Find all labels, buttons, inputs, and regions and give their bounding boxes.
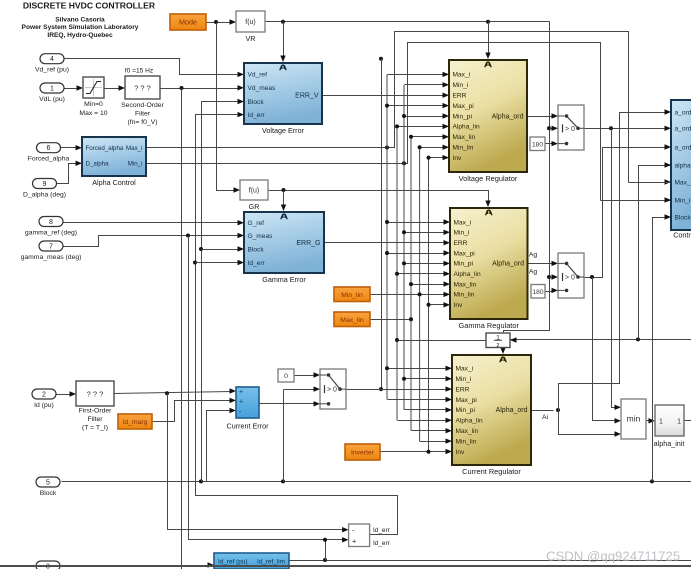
function block GR [240,180,268,211]
svg-text:Alpha Control: Alpha Control [92,178,136,187]
svg-text:Min_i: Min_i [454,230,470,237]
svg-text:Inv: Inv [454,302,463,309]
svg-text:ERR: ERR [456,386,470,393]
svg-text:Id_marg: Id_marg [123,419,148,426]
arrow into Gamma Error G_meas [238,233,245,238]
arrow into Current Regulator Max_lin [446,428,453,433]
junction bus at Gamma Min_i [402,230,406,234]
svg-text:Min_i: Min_i [128,161,143,168]
arrow into min input 2 [615,418,622,423]
wire ERR_G to Gamma Regulator [325,242,446,244]
junction bus at Voltage Inv [427,156,431,160]
subsystem Gamma Error [244,212,324,284]
wire trigger drop to Gamma Error [283,191,285,206]
svg-text:Alpha_lin: Alpha_lin [453,124,480,131]
wire Id to first-order filter [57,394,72,396]
inport 2 Id [32,389,56,409]
svg-text:+: + [352,537,357,546]
wire Block bus up to Voltage Error [202,102,240,482]
arrow into Voltage Regulator Min_pi [443,113,450,118]
signal label Id_err upper [373,527,391,534]
svg-text:? ? ?: ? ? ? [134,84,151,93]
switch 2 gamma [558,253,584,298]
svg-text:Silvano Casoria: Silvano Casoria [55,17,105,24]
svg-text:Min_lin: Min_lin [453,145,474,152]
wire bus tap to Voltage Regulator Max_i [388,74,445,76]
wire Ai up to controller a_ord_I [559,113,667,411]
svg-text:a_ord_: a_ord_ [675,144,691,151]
svg-text:Ag: Ag [529,252,538,259]
wire bus tap to Voltage Regulator Min_i [405,84,445,86]
svg-text:min: min [627,414,641,424]
wire Current Regulator Alpha_ord Ai [532,410,554,412]
svg-text:Min_pi: Min_pi [456,407,476,414]
arrow into first-order filter [70,391,77,396]
wire filter output to Vd_meas [161,88,240,90]
junction switch 1 output to min [609,126,613,130]
svg-text:Voltage Error: Voltage Error [262,126,305,135]
junction Vd_meas bus tap [180,86,184,90]
svg-text:7: 7 [49,243,53,250]
svg-text:9: 9 [43,181,47,188]
svg-text:Min_i: Min_i [456,376,472,383]
wire Min_lin source to Gamma Regulator [371,294,446,296]
wire bus tap to Voltage Regulator Max_lin [412,136,445,138]
wire switch 2 output to controller a_ord_G [585,148,667,278]
junction bus at Voltage Min_lin [418,145,422,149]
wire bus tap to Current Regulator Min_i [405,378,448,380]
arrow into Voltage Regulator Min_lin [443,145,450,150]
arrow into switch 3 control [314,386,321,391]
arrow into Gamma Regulator Max_lin [444,281,451,286]
source block Max_lin [334,312,370,327]
arrow into Current Regulator Min_lin [446,438,453,443]
wire alpha_init output [685,420,691,422]
author line 3 [47,32,113,39]
svg-text:? ? ?: ? ? ? [87,390,104,399]
junction Max_i bus source [385,146,389,150]
wire Max_i to controller Max_i [147,32,629,183]
arrow into controller alpha [665,162,672,167]
arrow into Current Error plus2 [230,398,237,403]
wire bus tap to Voltage Regulator Min_lin [420,147,445,149]
arrow into Gamma Error Block [238,246,245,251]
arrow into Voltage Regulator Max_pi [443,103,450,108]
arrow into Gamma Regulator Min_i [444,230,451,235]
wire bus tap to Gamma Regulator Min_i [405,232,446,234]
subsystem Alpha Control [82,137,146,187]
arrow into GR f(u) [234,187,241,192]
svg-text:Min_i: Min_i [675,197,691,204]
svg-text:Min=0: Min=0 [84,101,103,108]
wire Ai to min input 3 [559,411,617,435]
arrow into Voltage Regulator Min_i [443,82,450,87]
wire Forced_alpha to Alpha Control [60,147,79,149]
signal label Ag upper [529,252,538,259]
arrow into VR f(u) [230,19,237,24]
arrow into Voltage Error trigger [280,56,285,63]
wire Block signal horizontal [62,481,691,483]
svg-text:Id_err: Id_err [248,260,266,267]
svg-text:z: z [496,342,499,349]
svg-text:Current Error: Current Error [227,422,270,431]
svg-text:Id_err: Id_err [248,112,266,119]
wire Id_ref input [62,565,210,567]
arrow into min input 3 [615,431,622,436]
wire switch 2 output down to min input 2 [593,278,617,421]
junction Block wire to left bus [199,479,203,483]
wire gamma_ref to Gamma Error [63,222,240,224]
wire Id measured to Current Error [115,392,232,394]
svg-text:Voltage Regulator: Voltage Regulator [459,174,518,183]
arrow into sum plus [342,537,349,542]
inport 8 gamma_ref [25,217,77,237]
junction unit delay to Alpha_lin bus [395,338,399,342]
wire control to switch 1 [550,128,554,130]
arrow into Current Regulator ERR [446,386,453,391]
wire GR function output line [269,190,485,192]
wire Min_i to controller Min_i [147,43,601,201]
svg-text:VR: VR [246,34,256,43]
svg-text:alpha_init: alpha_init [654,439,685,448]
junction trigger Voltage Error [281,20,285,24]
svg-text:Alpha_lin: Alpha_lin [454,271,481,278]
junction at sum plus line [323,538,327,542]
wire Id measured down to sum minus [168,394,345,530]
arrow into Voltage Regulator Inv [443,155,450,160]
svg-text:180: 180 [532,141,543,148]
title text [23,1,156,11]
function block VR [236,11,265,43]
svg-text:Current Regulator: Current Regulator [462,467,521,476]
wire into switch 3 control [284,389,316,391]
svg-text:ERR: ERR [453,93,467,100]
arrow into switch 2 control [552,274,559,279]
wire trigger drop to Gamma Regulator [485,191,489,202]
wire Gamma Regulator Alpha_ord to switch 2 [528,263,554,265]
arrow into switch 1 input 3 [552,141,559,146]
svg-text:Ag: Ag [529,269,538,276]
svg-text:Min_pi: Min_pi [454,261,474,268]
junction bus at Voltage Max_pi [385,104,389,108]
wire switch 3 output to Current Regulator ERR [347,389,448,391]
wire Vd_ref distribution bus [381,59,383,390]
svg-text:Forced_alpha: Forced_alpha [86,145,124,152]
bus Max_lin vertical [410,137,412,431]
constant zero [278,369,294,382]
svg-text:Id (pu): Id (pu) [34,402,54,409]
svg-text:gamma_meas (deg): gamma_meas (deg) [21,254,82,261]
junction bus at Gamma Max_lin [409,282,413,286]
arrow into controller a_ord_V [665,126,672,131]
arrow into switch 3 input 1 [314,372,321,377]
wire bus tap to Current Regulator Alpha_lin [398,420,448,422]
svg-text:ERR_V: ERR_V [295,93,319,100]
arrow into switch 2 input 3 [552,288,559,293]
bus Max_i vertical [386,74,388,399]
arrow into Gamma Regulator trigger [485,201,490,208]
svg-text:0: 0 [284,373,288,380]
wire bus tap to Current Regulator Max_lin [412,430,448,432]
svg-text:a_ord_: a_ord_ [675,109,691,116]
junction Max_lin bus source [409,317,413,321]
arrow into Current Regulator Min_i [446,376,453,381]
svg-text:Block: Block [248,99,265,106]
wire bus tap to Voltage Regulator Max_pi [388,105,445,107]
wire Min_i into controller [601,200,672,202]
wire Id_ref_lim output [290,560,691,562]
svg-text:Alpha_ord: Alpha_ord [492,113,524,120]
svg-text:Max = 10: Max = 10 [79,110,107,117]
svg-text:Max_lin: Max_lin [340,317,364,324]
arrow into Voltage Error Vd_ref [238,72,245,77]
source block Mode [170,14,206,30]
wire D_alpha to Alpha Control [56,164,79,184]
inport 9 D_alpha [23,179,66,199]
wire bus tap to Voltage Regulator Min_pi [405,116,445,118]
svg-text:Max_pi: Max_pi [454,250,476,257]
junction Ai [556,408,560,412]
junction Id_err to Gamma Error [193,261,197,265]
first-order filter block [76,381,114,432]
wire Mode to VR function [207,22,232,24]
arrow into Gamma Error G_ref [238,220,245,225]
junction Vd_ref branch [379,57,383,61]
svg-text:1: 1 [659,419,663,426]
wire control to switch 2 [550,277,554,279]
wire 180 constant to switch 1 [546,143,554,145]
arrow into Gamma Error trigger [281,205,286,212]
wire Id_err to Gamma Error Id_err [196,262,240,264]
signal label Id_err lower [373,540,391,547]
wire bus tap to Gamma Regulator Max_lin [412,284,446,286]
svg-text:IREQ, Hydro-Quebec: IREQ, Hydro-Quebec [47,32,113,39]
wire gamma_meas to Gamma Error [63,236,240,247]
svg-text:DISCRETE HVDC CONTROLLER: DISCRETE HVDC CONTROLLER [23,1,156,11]
arrow into Voltage Error Block [238,99,245,104]
arrow into Alpha Control Forced_alpha [76,145,83,150]
arrow into Current Error minus [230,408,237,413]
svg-text:Max_i: Max_i [456,366,474,373]
junction bus at Voltage Max_lin [409,135,413,139]
svg-text:Filter: Filter [87,416,103,423]
source block Inverter [345,444,380,460]
wire Inverter to Current Regulator Inv [381,451,448,453]
svg-text:1: 1 [50,85,54,92]
wire bus tap to Gamma Regulator Min_pi [405,263,446,265]
arrow into Current Error plus1 [230,388,237,393]
bus Inv vertical from Inverter [428,158,430,452]
junction bus at Current Max_i [385,366,389,370]
svg-text:Second-Order: Second-Order [121,102,164,109]
wire Max_lin source to bus [371,319,412,321]
junction feedback to controller alpha [636,337,640,341]
svg-text:Max_i: Max_i [453,72,471,79]
junction bus at Gamma Inv [427,303,431,307]
arrow into second-order filter [119,85,126,90]
junction Inverter bus source [427,450,431,454]
unit delay block 1/z [486,333,510,349]
svg-text:8: 8 [49,219,53,226]
arrow into Gamma Regulator Alpha_lin [444,271,451,276]
wire bus tap to Gamma Regulator Alpha_lin [398,273,446,275]
svg-text:Inv: Inv [453,155,462,162]
arrow into Voltage Regulator Max_i [443,72,450,77]
wire Mode down to GR function [217,23,236,191]
arrow into Gamma Regulator ERR [444,240,451,245]
wire Block up to controller [653,218,667,482]
svg-text:D_alpha (deg): D_alpha (deg) [23,192,66,199]
arrow into Gamma Error Id_err [238,260,245,265]
wire bus tap to Current Regulator Min_pi [405,409,448,411]
junction Block wire to switch control bus [281,479,285,483]
wire trigger drop to Voltage Error [283,22,285,57]
wire 180 constant 2 to switch 2 [546,291,554,293]
arrow into Alpha Control D_alpha [76,161,83,166]
svg-text:2: 2 [42,391,46,398]
arrow into switch 2 input 1 [552,261,559,266]
svg-text:VdL (pu): VdL (pu) [39,96,65,103]
svg-text:5: 5 [46,479,50,486]
junction bus at Gamma Alpha_lin [395,272,399,276]
min block [621,399,646,439]
svg-text:GR: GR [249,202,260,211]
junction bus at Current Min_i [402,377,406,381]
arrow into controller a_ord_I [665,109,672,114]
wire switch 1 output to controller a_ord_V [585,128,667,130]
wire Max_i into controller [629,182,672,184]
svg-text:Min_lin: Min_lin [456,438,477,445]
arrow into min input 1 [615,405,622,410]
junction bus at Voltage Min_pi [402,114,406,118]
wire Vd_ref input to Voltage Error [65,59,240,75]
svg-text:Power System Simulation Labora: Power System Simulation Laboratory [22,24,139,31]
svg-text:Inverter: Inverter [351,450,375,457]
svg-text:a_ord_: a_ord_ [675,126,691,133]
arrow into Voltage Error Vd_meas [238,85,245,90]
inport 7 gamma_meas [21,241,82,261]
wire Id_marg to Current Error [153,401,232,422]
junction Min_i bus source [402,161,406,165]
wire Mode control riser to Current Regulator trigger [504,22,550,349]
svg-text:> 0: > 0 [327,387,337,394]
svg-text:6: 6 [47,145,51,152]
arrow into switch 1 input 1 [552,113,559,118]
wire bus tap to Gamma Regulator Max_pi [388,253,446,255]
inport 3 Id_ref [36,561,60,569]
arrow into Current Regulator Min_pi [446,407,453,412]
wire switch 3 control bus from Block line [283,390,285,482]
arrow into controller Block [665,214,672,219]
svg-text:f(u): f(u) [245,19,256,26]
arrow into controller Min_i [665,197,672,202]
wire bus to Current Error minus [207,411,232,482]
wire Current Error output to switch 3 [260,403,316,405]
junction Block wire to controller riser [650,479,654,483]
junction gamma_meas branch [186,234,190,238]
arrow into alpha_init [649,418,656,423]
junction Id measured tap [165,391,169,395]
junction bus at Gamma Min_pi [402,261,406,265]
junction trigger Gamma Error [282,188,286,192]
wire bus tap to Voltage Regulator Alpha_lin [398,126,445,128]
junction switch 2 output [590,275,594,279]
wire min output to alpha_init [647,420,651,422]
wire left bus down to sum plus input [189,236,345,540]
junction Min_lin bus source [418,292,422,296]
junction Block bus to Gamma Error [199,247,203,251]
svg-text:ERR: ERR [454,240,468,247]
wire VdL to saturation [65,88,80,90]
svg-text:Max_i: Max_i [454,219,472,226]
junction Mode control to switch 1 [547,126,551,130]
wire bus Vd_meas down to bottom edge [181,89,183,569]
svg-text:CSDN @qq924711725: CSDN @qq924711725 [546,549,680,564]
junction trigger Voltage Regulator [486,20,490,24]
wire bus tap to Gamma Regulator Inv [429,304,446,306]
subsystem Gamma Regulator [450,208,528,330]
svg-text:Ai: Ai [542,414,549,421]
wire bus tap to Current Regulator Max_i [388,368,448,370]
wire trigger drop to Voltage Regulator [488,22,490,54]
svg-text:(fn= f0_V): (fn= f0_V) [127,119,157,126]
wire bus tap to Current Regulator Max_pi [388,399,448,401]
svg-text:Contr: Contr [673,231,691,240]
svg-text:First-Order: First-Order [79,408,113,415]
svg-text:> 0: > 0 [565,275,575,282]
svg-text:Inv: Inv [456,449,465,456]
svg-text:> 0: > 0 [565,126,575,133]
wire saturation to second-order filter [105,88,122,90]
svg-text:Mode: Mode [179,18,197,27]
wire bus tap to Gamma Regulator Max_i [388,222,446,224]
arrow into controller a_ord_G [665,144,672,149]
arrow into Voltage Error Id_err [238,112,245,117]
wire ERR_V to Voltage Regulator [323,95,445,97]
svg-text:Min_lin: Min_lin [454,292,475,299]
inport 6 Forced_alpha [28,143,70,163]
wire Id_ref_lim riser to sum plus [325,540,327,561]
arrow into Current Regulator trigger [500,348,505,355]
svg-text:D_alpha: D_alpha [86,161,110,168]
junction Mode branch [214,20,218,24]
svg-text:(T = T_I): (T = T_I) [82,425,108,432]
wire bus tap to Current Regulator Min_lin [420,441,448,443]
svg-text:Id_ref (pu): Id_ref (pu) [218,559,247,566]
subsystem Current Regulator [452,355,531,476]
svg-text:4: 4 [50,56,54,63]
svg-text:Id_ref_lim: Id_ref_lim [257,559,285,566]
switch 3 current [320,369,346,409]
arrow into Id_ref block [208,562,215,567]
svg-text:Gamma Error: Gamma Error [262,275,306,284]
arrow into Voltage Regulator Alpha_lin [443,124,450,129]
arrow into switch 3 input 3 [314,401,321,406]
svg-text:Min_lin: Min_lin [341,292,363,299]
source block Id_marg [118,414,152,429]
inport 1 VdL [39,83,65,103]
wire Block bus to Gamma Error Block port [202,249,240,251]
arrow into Current Regulator Max_pi [446,397,453,402]
svg-text:Alpha_lin: Alpha_lin [456,418,483,425]
svg-text:Gamma Regulator: Gamma Regulator [459,321,520,330]
svg-text:Max_pi: Max_pi [456,397,478,404]
bus Min_i vertical [403,85,405,410]
bus Min_lin vertical [419,147,421,441]
author line 1 [55,17,105,24]
wire feedback up to controller alpha input [639,166,672,340]
wire VR function output / trigger line [266,21,550,23]
